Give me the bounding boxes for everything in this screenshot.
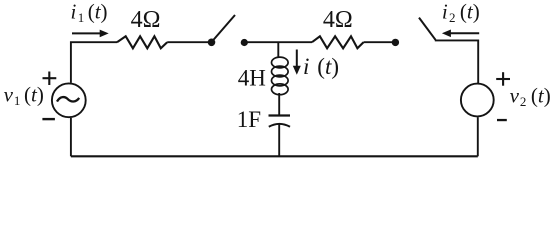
node A: tee drop to inductor branch [277,42,279,57]
switch S1 throw node (dot) [241,39,248,46]
svg-text:(t): (t) [460,0,480,23]
wire: R2 to switch S2 node [364,41,395,43]
wire: R1 to switch S1 pole [167,41,210,43]
switch S1 blade (open, up-right) [212,15,235,42]
wire: V2 bottom to bottom rail [477,117,479,156]
wire: V1 bottom to bottom rail [70,118,72,157]
capacitor C1 bottom plate (curved) [269,124,290,127]
svg-text:i: i [442,0,448,23]
switch S1 pole node (dot) [208,39,216,47]
wire: S1 throw to R2 (through node A tee) [246,41,312,43]
wire: left vertical + top-left segment to R1 [71,42,117,83]
resistor R1 (4 ohm) zigzag [117,36,167,48]
V1 sine tilde symbol [57,97,79,102]
current arrow i1(t) (right) [72,32,101,34]
svg-text:4H: 4H [238,65,266,90]
svg-text:1F: 1F [237,107,261,132]
svg-text:4Ω: 4Ω [323,7,353,33]
resistor R2 (4 ohm) zigzag [312,36,364,48]
switch S2 throw node (dot) [392,39,399,46]
svg-text:4Ω: 4Ω [131,7,161,33]
wire: coil bottom to capacitor top plate [278,93,280,115]
V2 minus sign [497,119,507,121]
svg-text:2: 2 [449,10,456,25]
svg-text:i: i [303,54,309,79]
svg-text:(t): (t) [317,54,339,79]
inductor L1 coil (4 loops) [272,57,289,95]
svg-text:2: 2 [520,94,527,109]
wire: capacitor to bottom rail [278,124,280,156]
svg-text:1: 1 [78,10,85,25]
svg-text:i: i [71,0,77,23]
voltage source V2 circle [461,84,494,117]
svg-text:v: v [4,82,14,106]
voltage source V1 circle [52,83,86,117]
wire: S2 blade hinge to right corner and down to V2 [435,40,478,83]
svg-text:1: 1 [14,93,21,108]
switch S2 blade (open, from upper-left down to wire) [419,18,436,40]
svg-text:(t): (t) [531,84,551,108]
bottom rail wire [71,155,478,157]
capacitor C1 top plate [269,114,291,116]
V1 minus sign [42,118,55,120]
V2 plus sign [496,72,510,86]
current arrow i(t) (down) [296,50,298,67]
V1 plus sign [43,72,57,86]
current arrow i2(t) (left) [450,32,479,34]
svg-text:(t): (t) [88,0,108,23]
svg-text:(t): (t) [24,82,44,106]
svg-text:v: v [510,84,520,108]
